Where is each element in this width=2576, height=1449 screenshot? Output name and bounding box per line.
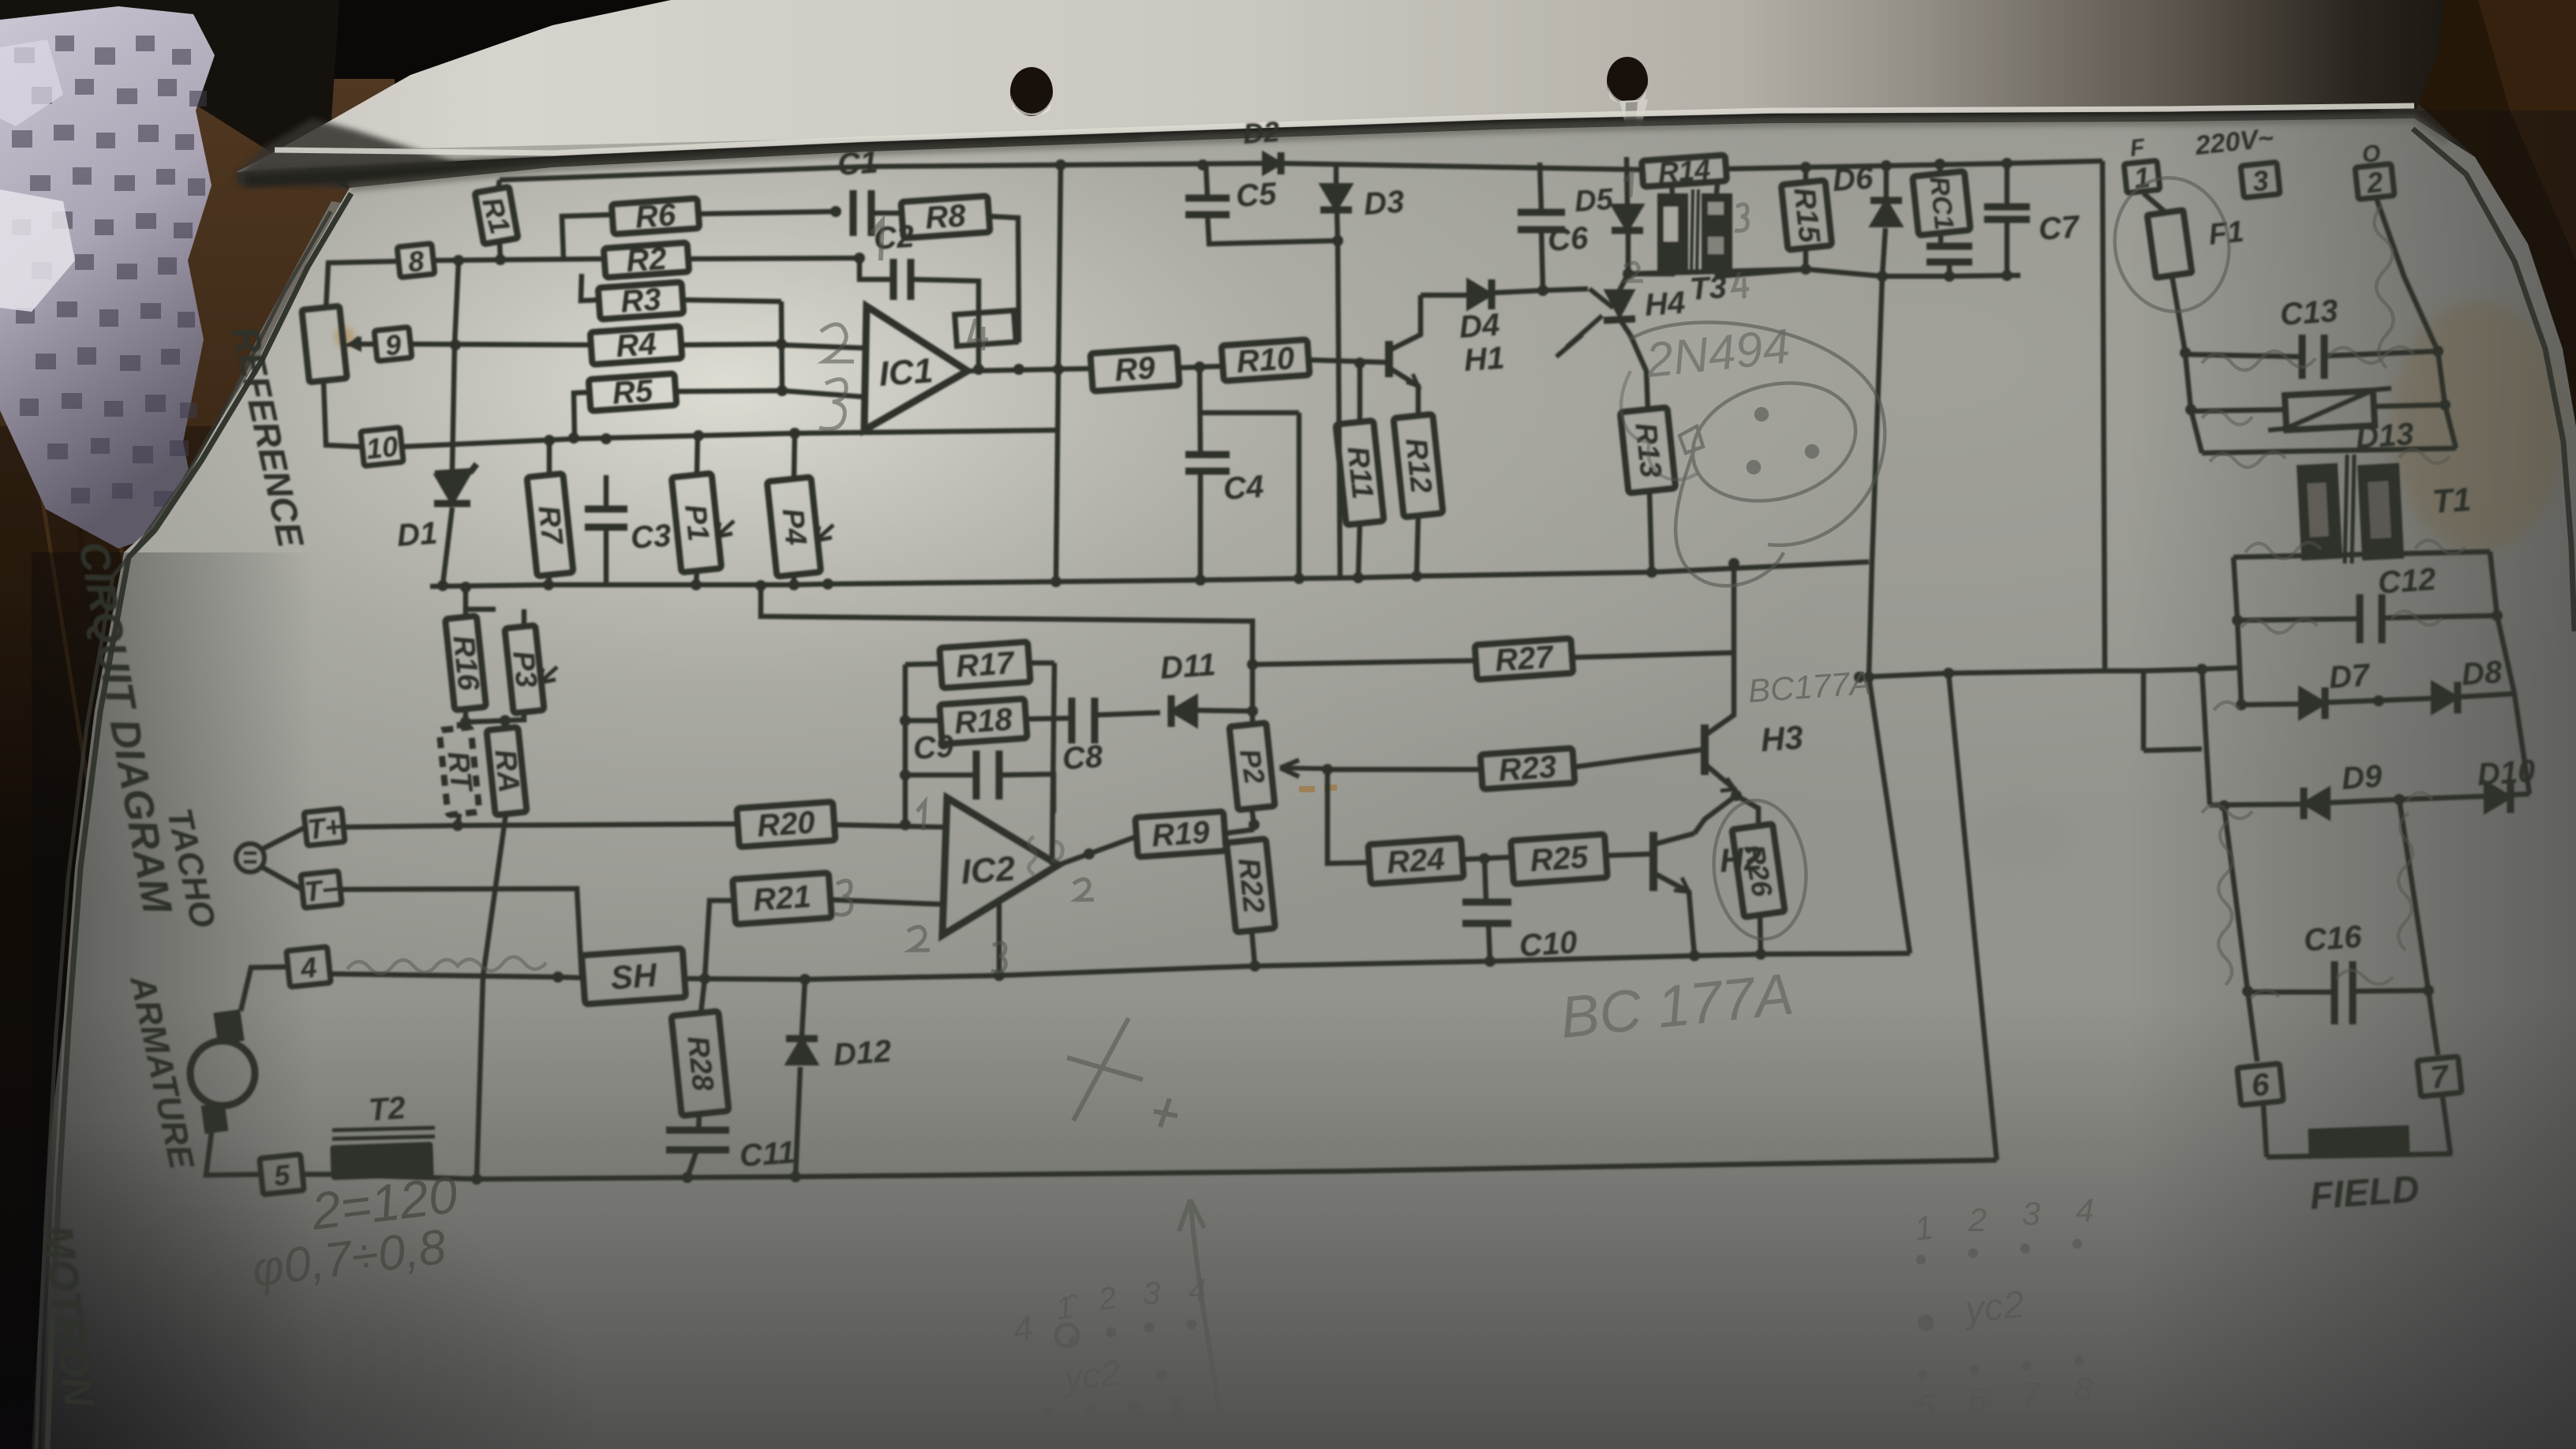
resistor R26 xyxy=(1732,824,1784,917)
shunt SH xyxy=(582,949,686,1005)
diode D9 xyxy=(2304,758,2383,819)
wire C4 box right vertical xyxy=(1297,413,1302,578)
wire C2 right to output column xyxy=(911,279,979,369)
wire R2 right to C2 node xyxy=(688,253,865,264)
wire R17 column vertical xyxy=(1052,663,1054,865)
wire vertical to bridge lower row xyxy=(2202,669,2210,805)
wire pot wiper arrow xyxy=(352,338,378,344)
wire D3 vertical xyxy=(1334,163,1339,183)
wire R23 left stub xyxy=(1327,767,1481,773)
wire RA top stem xyxy=(504,721,509,728)
svg-text:R9: R9 xyxy=(1114,350,1157,388)
capacitor C5 xyxy=(1185,176,1278,215)
pencil squiggles along C13 row xyxy=(2202,346,2413,370)
wire terminal 10 bus to P4 top xyxy=(402,428,1060,447)
svg-text:5: 5 xyxy=(1040,1415,1058,1449)
resistor R13 xyxy=(1620,407,1676,493)
wire H4 cathode upper xyxy=(1619,319,1631,335)
pencil squiggles on bus4 near terminal 4 xyxy=(347,957,546,974)
transformer T1 core xyxy=(2297,455,2473,563)
wire D6 vertical top xyxy=(1884,166,1889,198)
svg-text:D8: D8 xyxy=(2461,654,2504,692)
pencil arrow bottom middle xyxy=(1179,1200,1222,1421)
wire R19 right to P2 bottom node xyxy=(1225,819,1260,833)
wooden table top-right corner xyxy=(2281,0,2576,474)
wire input rail vertical xyxy=(900,665,911,830)
wire terminal 7 down xyxy=(2443,1097,2451,1154)
svg-text:C8: C8 xyxy=(1061,739,1105,777)
capacitor C16 xyxy=(2303,919,2364,1024)
node top bus / mid vertical xyxy=(1055,159,1066,170)
svg-text:D4: D4 xyxy=(1458,308,1501,345)
wire terminal 1 to F1 xyxy=(2144,193,2166,212)
resistor R16 xyxy=(445,616,486,710)
wire bus5 bottom rail xyxy=(302,1160,1997,1185)
wire to IC1 inverting input xyxy=(781,345,865,348)
wire D11 to P2 top node xyxy=(1197,706,1258,717)
svg-text:IC1: IC1 xyxy=(878,351,934,394)
pencil pin grid right xyxy=(1912,1192,2095,1425)
pencil numbers 1-4 around T3 xyxy=(1624,174,1749,298)
motor armature xyxy=(190,1009,255,1134)
diode D5 xyxy=(1574,183,1643,230)
terminal 3 xyxy=(2241,162,2280,198)
diode D10 xyxy=(2477,754,2537,813)
resistor RA xyxy=(486,727,526,815)
wire C9 left stub xyxy=(905,773,976,778)
svg-text:R3: R3 xyxy=(620,282,662,319)
resistor R14 xyxy=(1642,152,1728,189)
wire T3 pin1 stem xyxy=(1672,184,1672,193)
wire terminal 4 left to motor xyxy=(241,967,288,1011)
pencil slash marks near D12 area xyxy=(1067,1018,1178,1127)
wire R3R4R5 joining vertical xyxy=(776,301,788,396)
wire IC1 output to R9 xyxy=(968,364,1091,375)
op-amp IC1 xyxy=(864,306,968,430)
wire T1 secondary left vertical xyxy=(2232,557,2243,626)
wire P1 bottom stem xyxy=(696,571,697,585)
svg-text:C7: C7 xyxy=(2038,209,2082,247)
wire bridge left vertical xyxy=(2236,620,2247,710)
svg-text:R11: R11 xyxy=(1341,445,1380,501)
resistor R1 xyxy=(474,187,519,245)
svg-text:D1: D1 xyxy=(396,516,439,553)
wire C12 row left xyxy=(2237,619,2360,620)
resistor R23 xyxy=(1481,748,1575,789)
svg-text:10: 10 xyxy=(365,430,399,466)
punch hole left xyxy=(1010,67,1053,116)
resistor R25 xyxy=(1511,834,1608,884)
wire T- row xyxy=(339,889,582,977)
svg-text:R2: R2 xyxy=(625,241,668,279)
wire C13 row right xyxy=(2324,351,2438,356)
wire motor bottom to terminal 5 xyxy=(206,1133,261,1175)
wire R11 top stem xyxy=(1357,363,1363,422)
wire P3 top stem xyxy=(522,609,527,627)
svg-text:RA: RA xyxy=(488,748,526,795)
wire R17 right stub xyxy=(1029,661,1054,666)
svg-text:R18: R18 xyxy=(953,702,1014,740)
wire R12 bottom stem xyxy=(1417,515,1418,576)
wire bridge right vertical xyxy=(2497,616,2514,694)
wire C10 stem bottom xyxy=(1488,923,1490,961)
pencil marks 8 03 near IC2 xyxy=(1028,837,1062,874)
svg-text:3: 3 xyxy=(2251,164,2270,198)
resistor R19 xyxy=(1135,811,1226,857)
wire C11 bottom stem xyxy=(687,1150,697,1178)
wire P4 bottom stem xyxy=(792,575,797,585)
svg-text:8: 8 xyxy=(406,245,425,279)
svg-text:7: 7 xyxy=(2022,1375,2042,1412)
diode D4 xyxy=(1458,279,1501,345)
wire H3 emitter to H2 collector xyxy=(1694,796,1736,833)
resistor R27 xyxy=(1475,638,1574,680)
svg-text:R16: R16 xyxy=(446,634,485,693)
svg-text:R19: R19 xyxy=(1151,814,1211,853)
wire R27 right stub xyxy=(1572,653,1734,657)
wire terminal 8 to R2 and R1 node xyxy=(432,254,605,266)
transistor H1 xyxy=(1383,295,1506,416)
svg-text:T−: T− xyxy=(303,872,340,908)
svg-text:P2: P2 xyxy=(1234,747,1271,786)
wire P2 bottom stem xyxy=(1252,808,1254,825)
capacitor C11 xyxy=(666,1130,796,1174)
potentiometer P3 xyxy=(504,625,544,713)
svg-text:T+: T+ xyxy=(306,810,343,845)
wire T1 primary bottom row xyxy=(2202,448,2456,453)
wire R26 bottom stem xyxy=(1760,915,1761,954)
wire D4 row xyxy=(1421,285,1588,296)
wire D3 down to bus2 xyxy=(1332,212,1343,578)
wire R6 right to C1 node xyxy=(698,206,841,217)
resistor R21 xyxy=(732,873,832,924)
wire terminal 9 to R4 xyxy=(410,339,591,350)
svg-text:RT: RT xyxy=(441,750,478,795)
wire D5 vertical xyxy=(1627,157,1627,204)
capacitor C2 xyxy=(873,219,915,300)
svg-text:4: 4 xyxy=(298,951,318,985)
lace doily top-left xyxy=(0,6,215,549)
svg-text:R14: R14 xyxy=(1657,153,1712,189)
svg-text:R24: R24 xyxy=(1386,841,1446,880)
wire C10 stem top xyxy=(1485,859,1486,902)
svg-text:2: 2 xyxy=(1968,1201,1986,1238)
resistor R17 xyxy=(939,642,1030,688)
wire C13 row left xyxy=(2185,354,2302,357)
wire R25 right to H2 base xyxy=(1606,854,1653,856)
svg-text:R4: R4 xyxy=(615,327,657,364)
svg-text:yc2: yc2 xyxy=(1961,1283,2027,1331)
terminal 2 xyxy=(2355,163,2394,200)
wire R7 top stem xyxy=(547,440,552,475)
svg-text:R20: R20 xyxy=(756,805,816,844)
diode D12 xyxy=(786,1034,893,1073)
wire short horizontal under T1 xyxy=(2144,749,2202,751)
field winding bar xyxy=(2308,1125,2409,1159)
wire R16 P3 top joint xyxy=(460,582,496,609)
svg-text:H4: H4 xyxy=(1644,286,1687,323)
wire R3 right stub xyxy=(683,300,781,301)
wire R16 top stem xyxy=(463,609,469,617)
svg-text:C16: C16 xyxy=(2303,919,2364,958)
diode D7 xyxy=(2300,657,2372,719)
svg-text:C5: C5 xyxy=(1235,176,1279,214)
wire vertical to bottom bus right end xyxy=(1949,673,1997,1160)
terminal 6 xyxy=(2237,1064,2284,1106)
svg-text:D12: D12 xyxy=(833,1034,893,1073)
capacitor C10 xyxy=(1462,902,1578,964)
terminal T+ xyxy=(304,808,345,845)
svg-text:6: 6 xyxy=(1083,1410,1101,1445)
diode D8 xyxy=(2432,654,2503,713)
resistor R24 xyxy=(1368,838,1463,884)
wire C16 left vertical from D9 row xyxy=(2218,800,2253,997)
svg-text:D6: D6 xyxy=(1832,160,1875,198)
svg-text:D3: D3 xyxy=(1363,185,1406,222)
diode D11 xyxy=(1159,647,1217,727)
svg-text:3: 3 xyxy=(1143,1276,1160,1311)
drawing frame: left border lines xyxy=(36,193,351,1449)
svg-text:SH: SH xyxy=(609,956,659,996)
wire R18 left stub xyxy=(905,718,941,724)
wire R13 bottom stem xyxy=(1649,491,1652,572)
wire C4 bottom to bus2 xyxy=(1198,471,1204,580)
wire R18 right to C8 xyxy=(1026,718,1072,719)
varistor D13 xyxy=(2268,388,2415,455)
svg-text:P3: P3 xyxy=(506,650,543,690)
diode D6 xyxy=(1832,160,1902,226)
wire P4 top stem xyxy=(794,433,795,479)
potentiometer REF divider xyxy=(301,306,346,383)
wire R21 right to IC2 input xyxy=(830,900,945,904)
resistor R18 xyxy=(939,698,1027,743)
wire bridge mid down to C16 right xyxy=(2399,799,2434,996)
svg-text:R7: R7 xyxy=(532,504,569,548)
wire R24 to R25 xyxy=(1462,853,1512,864)
wire top bus right of R14 xyxy=(1726,158,2102,173)
transistor H3 xyxy=(1705,562,1804,796)
wire H3 collector rail to bridge xyxy=(1854,664,2240,683)
resistor R7 xyxy=(527,474,574,576)
wire F1 down to C13 row xyxy=(2172,275,2191,358)
dark shadow top-left above sheet corner xyxy=(0,0,350,189)
svg-text:FIELD: FIELD xyxy=(2308,1168,2421,1218)
terminal 7 xyxy=(2417,1057,2462,1097)
extra wood darkening left xyxy=(0,426,260,1449)
wire zener bar D1 xyxy=(435,464,477,474)
pencil digit 1 near IC1 xyxy=(871,221,882,260)
shadow gap between sheets xyxy=(237,115,2414,178)
wire R9R10 node down to C4 xyxy=(1200,367,1200,455)
wire R23 right to H3 base xyxy=(1574,750,1702,767)
svg-text:P4: P4 xyxy=(776,507,813,547)
svg-text:C11: C11 xyxy=(739,1135,796,1174)
svg-text:yc2: yc2 xyxy=(1060,1352,1123,1399)
svg-text:4: 4 xyxy=(1189,1273,1206,1308)
capacitor C12 xyxy=(2360,562,2437,643)
shadow wedge at sheet corner xyxy=(237,118,489,189)
wire short vertical T1 left xyxy=(2141,671,2147,751)
wire R27 left stub xyxy=(1252,661,1476,665)
wire top bus xyxy=(500,163,1642,180)
capacitor C6 xyxy=(1518,212,1589,258)
wire P2 top stem xyxy=(1250,711,1256,724)
wire T1 primary right vertical xyxy=(2438,351,2456,448)
capacitor C1 xyxy=(837,145,879,236)
paper tear under right punch hole xyxy=(1619,99,1648,133)
svg-text:C12: C12 xyxy=(2377,562,2437,601)
wire C8 to D11 xyxy=(1095,713,1160,715)
wire bus4 SH rail left part xyxy=(332,972,583,983)
wire H3 emitter to R26 xyxy=(1736,796,1758,826)
node top bus / C5 xyxy=(1197,159,1208,170)
transformer T3 core bars xyxy=(1657,189,1732,275)
tacho generator circle xyxy=(236,844,264,872)
capacitor C13 xyxy=(2279,294,2339,379)
resistor-capacitor RC1 xyxy=(1912,171,1970,235)
arrow P1 wiper xyxy=(717,521,734,537)
svg-text:6: 6 xyxy=(1968,1381,1987,1418)
potentiometer P1 xyxy=(672,474,721,573)
wire R9 to R10 xyxy=(1178,361,1222,373)
wire R21 left stem down xyxy=(705,900,734,979)
pencil digits near IC2 xyxy=(835,802,1094,972)
wire R15 bottom stem xyxy=(1800,248,1811,275)
svg-text:D2: D2 xyxy=(1242,115,1281,150)
resistor R11 xyxy=(1335,421,1383,525)
wire R8 right corner down xyxy=(989,216,1019,343)
wire R11 bottom stem xyxy=(1358,523,1360,578)
wire C4 box top xyxy=(1200,410,1299,416)
resistor R3 xyxy=(598,280,684,320)
resistor R22 xyxy=(1226,839,1275,933)
capacitor C8 xyxy=(1061,698,1105,777)
svg-text:R21: R21 xyxy=(752,879,812,918)
wire R15 top stem xyxy=(1803,167,1809,182)
pencil digit 4 near IC1 output square xyxy=(969,319,988,350)
wooden table left xyxy=(0,79,395,1449)
svg-text:RC1: RC1 xyxy=(1924,175,1960,232)
wire R28 to C11 xyxy=(698,1114,699,1130)
svg-text:2: 2 xyxy=(2364,166,2384,200)
terminal 8 xyxy=(397,243,435,279)
wire D1 cathode down to bus2 xyxy=(443,507,452,585)
svg-text:T2: T2 xyxy=(368,1091,407,1128)
svg-text:R6: R6 xyxy=(634,197,677,235)
wire D12 vertical xyxy=(802,979,805,1035)
terminal T- xyxy=(301,871,342,908)
wire C12 row right xyxy=(2382,616,2497,618)
wire R5 right stub xyxy=(676,391,781,391)
svg-text:D11: D11 xyxy=(1159,647,1217,686)
wire bus2 horizontal rail xyxy=(430,562,1869,591)
svg-text:R10: R10 xyxy=(1235,341,1295,380)
resistor R12 xyxy=(1394,414,1443,518)
wire pot bottom to terminal 10 xyxy=(324,382,361,447)
svg-text:C13: C13 xyxy=(2279,294,2339,332)
arrow P4 wiper xyxy=(816,525,833,541)
wire R17 left stub xyxy=(905,664,941,665)
wire T1 secondary right vertical xyxy=(2490,552,2503,621)
resistor R15 xyxy=(1781,180,1832,249)
svg-text:C1: C1 xyxy=(837,145,879,182)
diode D3 xyxy=(1320,185,1406,222)
svg-text:R8: R8 xyxy=(924,198,968,236)
terminal 5 xyxy=(260,1155,304,1195)
page stack edges along spine xyxy=(32,201,367,1449)
wire RT bottom to T+ row xyxy=(452,814,463,831)
wire R3 left stub xyxy=(581,274,599,301)
transistor H2 xyxy=(1653,832,1763,956)
wire C16 row right xyxy=(2353,990,2428,991)
wire R16 P3 bottom joint xyxy=(460,709,524,728)
pencil squiggles along right verticals xyxy=(2218,813,2413,998)
pencil squiggles along terminal 2 wire xyxy=(2374,205,2393,368)
wire P1 top stem xyxy=(697,436,698,475)
pencil pin grid left: yc2 and bottom row xyxy=(1040,1352,1186,1449)
svg-text:IC2: IC2 xyxy=(960,849,1017,892)
wire bus4 SH rail right part xyxy=(684,949,1910,985)
svg-text:9: 9 xyxy=(384,328,402,362)
resistor R28 xyxy=(672,1011,729,1116)
pencil circle around R26 xyxy=(1707,796,1813,943)
wire RC1 top stem xyxy=(1938,164,1943,174)
pin 4 square of IC1 xyxy=(955,310,1017,346)
punch hole right xyxy=(1607,57,1648,104)
wire varistor row right xyxy=(2374,405,2445,406)
terminal 9 xyxy=(374,327,412,362)
wire field bottom row xyxy=(2267,1154,2452,1157)
svg-text:H3: H3 xyxy=(1759,718,1804,758)
wire H4 cathode to R13 xyxy=(1631,335,1648,410)
upper page (previous bright sheet) xyxy=(237,0,2443,172)
capacitor C4 xyxy=(1185,455,1265,507)
potentiometer P2 xyxy=(1230,723,1275,810)
fuse F1 xyxy=(2147,210,2245,278)
svg-text:P1: P1 xyxy=(678,503,715,543)
capacitor C9 xyxy=(912,728,999,799)
wire C1 to R8 xyxy=(871,211,902,216)
resistor R2 xyxy=(604,240,690,280)
svg-text:R22: R22 xyxy=(1231,856,1270,915)
wire RA bottom long to bus5 xyxy=(477,814,506,1179)
wire D9 D10 row xyxy=(2210,794,2529,805)
svg-text:R25: R25 xyxy=(1529,840,1589,878)
svg-text:R27: R27 xyxy=(1494,639,1556,678)
wire R1 bottom stem xyxy=(500,241,500,260)
wire T3 pin4 to R15 node xyxy=(1717,269,1806,276)
wire to terminal 6 xyxy=(2248,991,2257,1061)
svg-text:C9: C9 xyxy=(912,728,956,766)
resistor RT (dashed) xyxy=(439,727,479,815)
resistor R20 xyxy=(736,802,835,847)
pencil circle around fuse F1 xyxy=(2104,169,2239,320)
terminal 4 xyxy=(286,947,331,987)
arrow P3 wiper xyxy=(540,667,557,683)
resistor R4 xyxy=(590,325,683,366)
resistor R5 xyxy=(589,372,677,412)
resistor R9 xyxy=(1090,347,1179,391)
transformer T2 xyxy=(330,1091,435,1180)
wire top bus right corner vertical xyxy=(2102,161,2105,670)
wire center vertical (top bus to bus2) xyxy=(1056,165,1061,582)
node H3 collector on bus2 xyxy=(1728,558,1739,569)
wire D1 anode up xyxy=(452,261,459,471)
wire R1 top stem xyxy=(498,180,500,189)
wire D12 bottom xyxy=(796,1067,800,1177)
svg-text:8: 8 xyxy=(2074,1370,2093,1407)
svg-text:D5: D5 xyxy=(1574,183,1615,219)
